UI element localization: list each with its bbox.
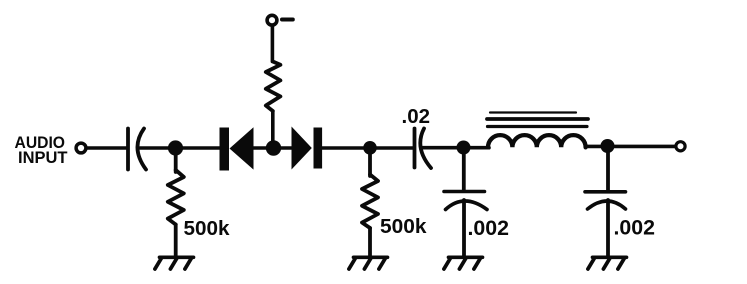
svg-text:.002: .002 <box>468 216 510 240</box>
wire C1 to diode D1 (through node A) <box>140 146 220 150</box>
wire D1 to D2 (through node B) <box>253 146 292 150</box>
wire C4 to ground <box>606 200 610 257</box>
ground (below R1) <box>155 257 194 269</box>
wire C3 to ground <box>462 200 466 257</box>
node C junction <box>363 141 377 155</box>
inductor L1 core lines <box>487 113 588 127</box>
svg-text:500k: 500k <box>380 216 427 238</box>
ground (below C4) <box>588 257 627 269</box>
label minus <box>282 18 293 22</box>
node E junction <box>601 139 615 153</box>
capacitor C3 <box>444 192 487 210</box>
svg-text:.002: .002 <box>614 216 656 240</box>
resistor R3 <box>362 175 378 229</box>
node D junction <box>457 141 471 155</box>
terminal (negative supply) <box>267 15 277 25</box>
node A junction <box>168 140 183 155</box>
capacitor C1 <box>128 129 146 170</box>
input terminal <box>76 143 86 153</box>
wire node B up to R2 <box>271 111 275 141</box>
resistor R1 <box>168 170 184 225</box>
inductor L1 <box>488 135 586 147</box>
svg-text:500k: 500k <box>184 218 231 240</box>
wire inductor to output (through node E) <box>586 145 675 149</box>
diode D2 <box>292 127 323 170</box>
wire R3 to ground <box>368 228 372 257</box>
svg-text:INPUT: INPUT <box>18 148 68 167</box>
output terminal <box>676 142 685 151</box>
svg-text:.02: .02 <box>402 106 431 128</box>
ground (below R3) <box>349 257 388 269</box>
wire D2 to C2 (through node C) <box>322 146 414 150</box>
wire node D down to C3 <box>462 148 466 190</box>
label AUDIO INPUT <box>15 133 69 167</box>
node B junction <box>266 140 281 155</box>
wire node E down to C4 <box>606 146 610 190</box>
resistor R2 <box>266 62 281 112</box>
wire node C down to R3 <box>368 148 372 176</box>
wire input to C1 <box>88 146 127 150</box>
wire R2 to negative terminal <box>271 27 275 62</box>
capacitor C2 <box>415 129 432 169</box>
diode D1 <box>220 127 254 170</box>
ground (below C3) <box>444 257 483 269</box>
wire node A down to R1 <box>174 148 178 172</box>
capacitor C4 <box>585 192 626 209</box>
wire R1 to ground <box>174 225 178 258</box>
wire C2 to inductor (through node D) <box>421 146 489 150</box>
